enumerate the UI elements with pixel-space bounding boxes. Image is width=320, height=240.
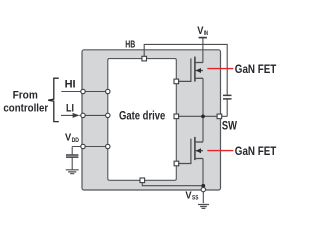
- wire LO gate lead to Q2: [176, 139, 191, 164]
- svg-text:HI: HI: [65, 79, 76, 91]
- pin VSS package (circle): [201, 187, 205, 191]
- pin HI package (circle): [81, 89, 85, 93]
- transistor Q1 (top GaN FET): [195, 57, 203, 82]
- svg-text:HB: HB: [125, 39, 135, 50]
- pin LI inner (circle): [106, 113, 110, 117]
- svg-text:GaN FET: GaN FET: [235, 144, 277, 158]
- wire HI input: [61, 91, 108, 93]
- ground (VDD bypass): [66, 170, 79, 174]
- wire LI input: [61, 114, 74, 116]
- wire bootstrap cap bottom to SW row: [226, 99, 228, 116]
- pin VSS inner (square): [140, 178, 145, 183]
- wire SW row: [176, 115, 227, 117]
- svg-text:DD: DD: [72, 137, 80, 144]
- svg-text:SS: SS: [192, 195, 198, 202]
- wire VIN down to Q1 drain: [202, 38, 204, 63]
- svg-text:IN: IN: [204, 30, 209, 37]
- junction dot VSS node: [201, 184, 205, 188]
- wire VSS node down to ground: [202, 186, 204, 203]
- wire VDD row: [72, 146, 108, 148]
- red callout line GaN FET bottom: [207, 150, 233, 152]
- wire HO gate lead to Q1: [176, 58, 191, 81]
- pin LI package (circle): [81, 113, 85, 117]
- wire HB net: pin up, right, down to bootstrap cap: [144, 44, 227, 95]
- pin HS (square): [174, 114, 179, 119]
- VIN terminal bar: [199, 37, 207, 39]
- LI arrowhead: [73, 113, 80, 118]
- wire VSS pin to VSS node: [142, 180, 203, 185]
- gate drive inner block: [108, 59, 177, 181]
- svg-text:Gate drive: Gate drive: [119, 110, 165, 122]
- wire VDD cap branch: [71, 147, 73, 155]
- svg-text:V: V: [65, 132, 71, 144]
- pin SW package (square): [217, 114, 222, 119]
- pin VDD package (circle): [81, 144, 85, 148]
- svg-text:controller: controller: [3, 102, 48, 114]
- svg-text:GaN FET: GaN FET: [235, 62, 277, 76]
- wire Q1 source to Q2 drain (switch node vertical): [202, 78, 204, 142]
- svg-text:SW: SW: [222, 118, 238, 132]
- transistor Q2 (bottom GaN FET): [195, 137, 203, 160]
- wire LI through block: [79, 114, 108, 116]
- pin HB (square): [142, 56, 147, 61]
- ground (VSS): [198, 205, 209, 209]
- capacitor C2 (VDD bypass): [66, 155, 78, 157]
- wire VDD cap to ground: [71, 157, 73, 169]
- pin VDD inner (circle): [106, 144, 110, 148]
- pin LO (square): [174, 161, 179, 166]
- junction dot SW node: [201, 114, 205, 118]
- svg-text:From: From: [13, 90, 38, 102]
- svg-text:V: V: [185, 189, 191, 201]
- capacitor C1 (bootstrap, HB-SW): [223, 95, 232, 99]
- red callout line GaN FET top: [207, 68, 233, 70]
- pin HO (square): [174, 79, 179, 84]
- brace from controller: [48, 78, 59, 121]
- wire Q2 source down to VSS node: [202, 159, 204, 186]
- svg-text:LI: LI: [66, 102, 74, 114]
- gate driver IC body U1 (gray block): [82, 50, 221, 190]
- pin HI inner (circle): [106, 89, 110, 93]
